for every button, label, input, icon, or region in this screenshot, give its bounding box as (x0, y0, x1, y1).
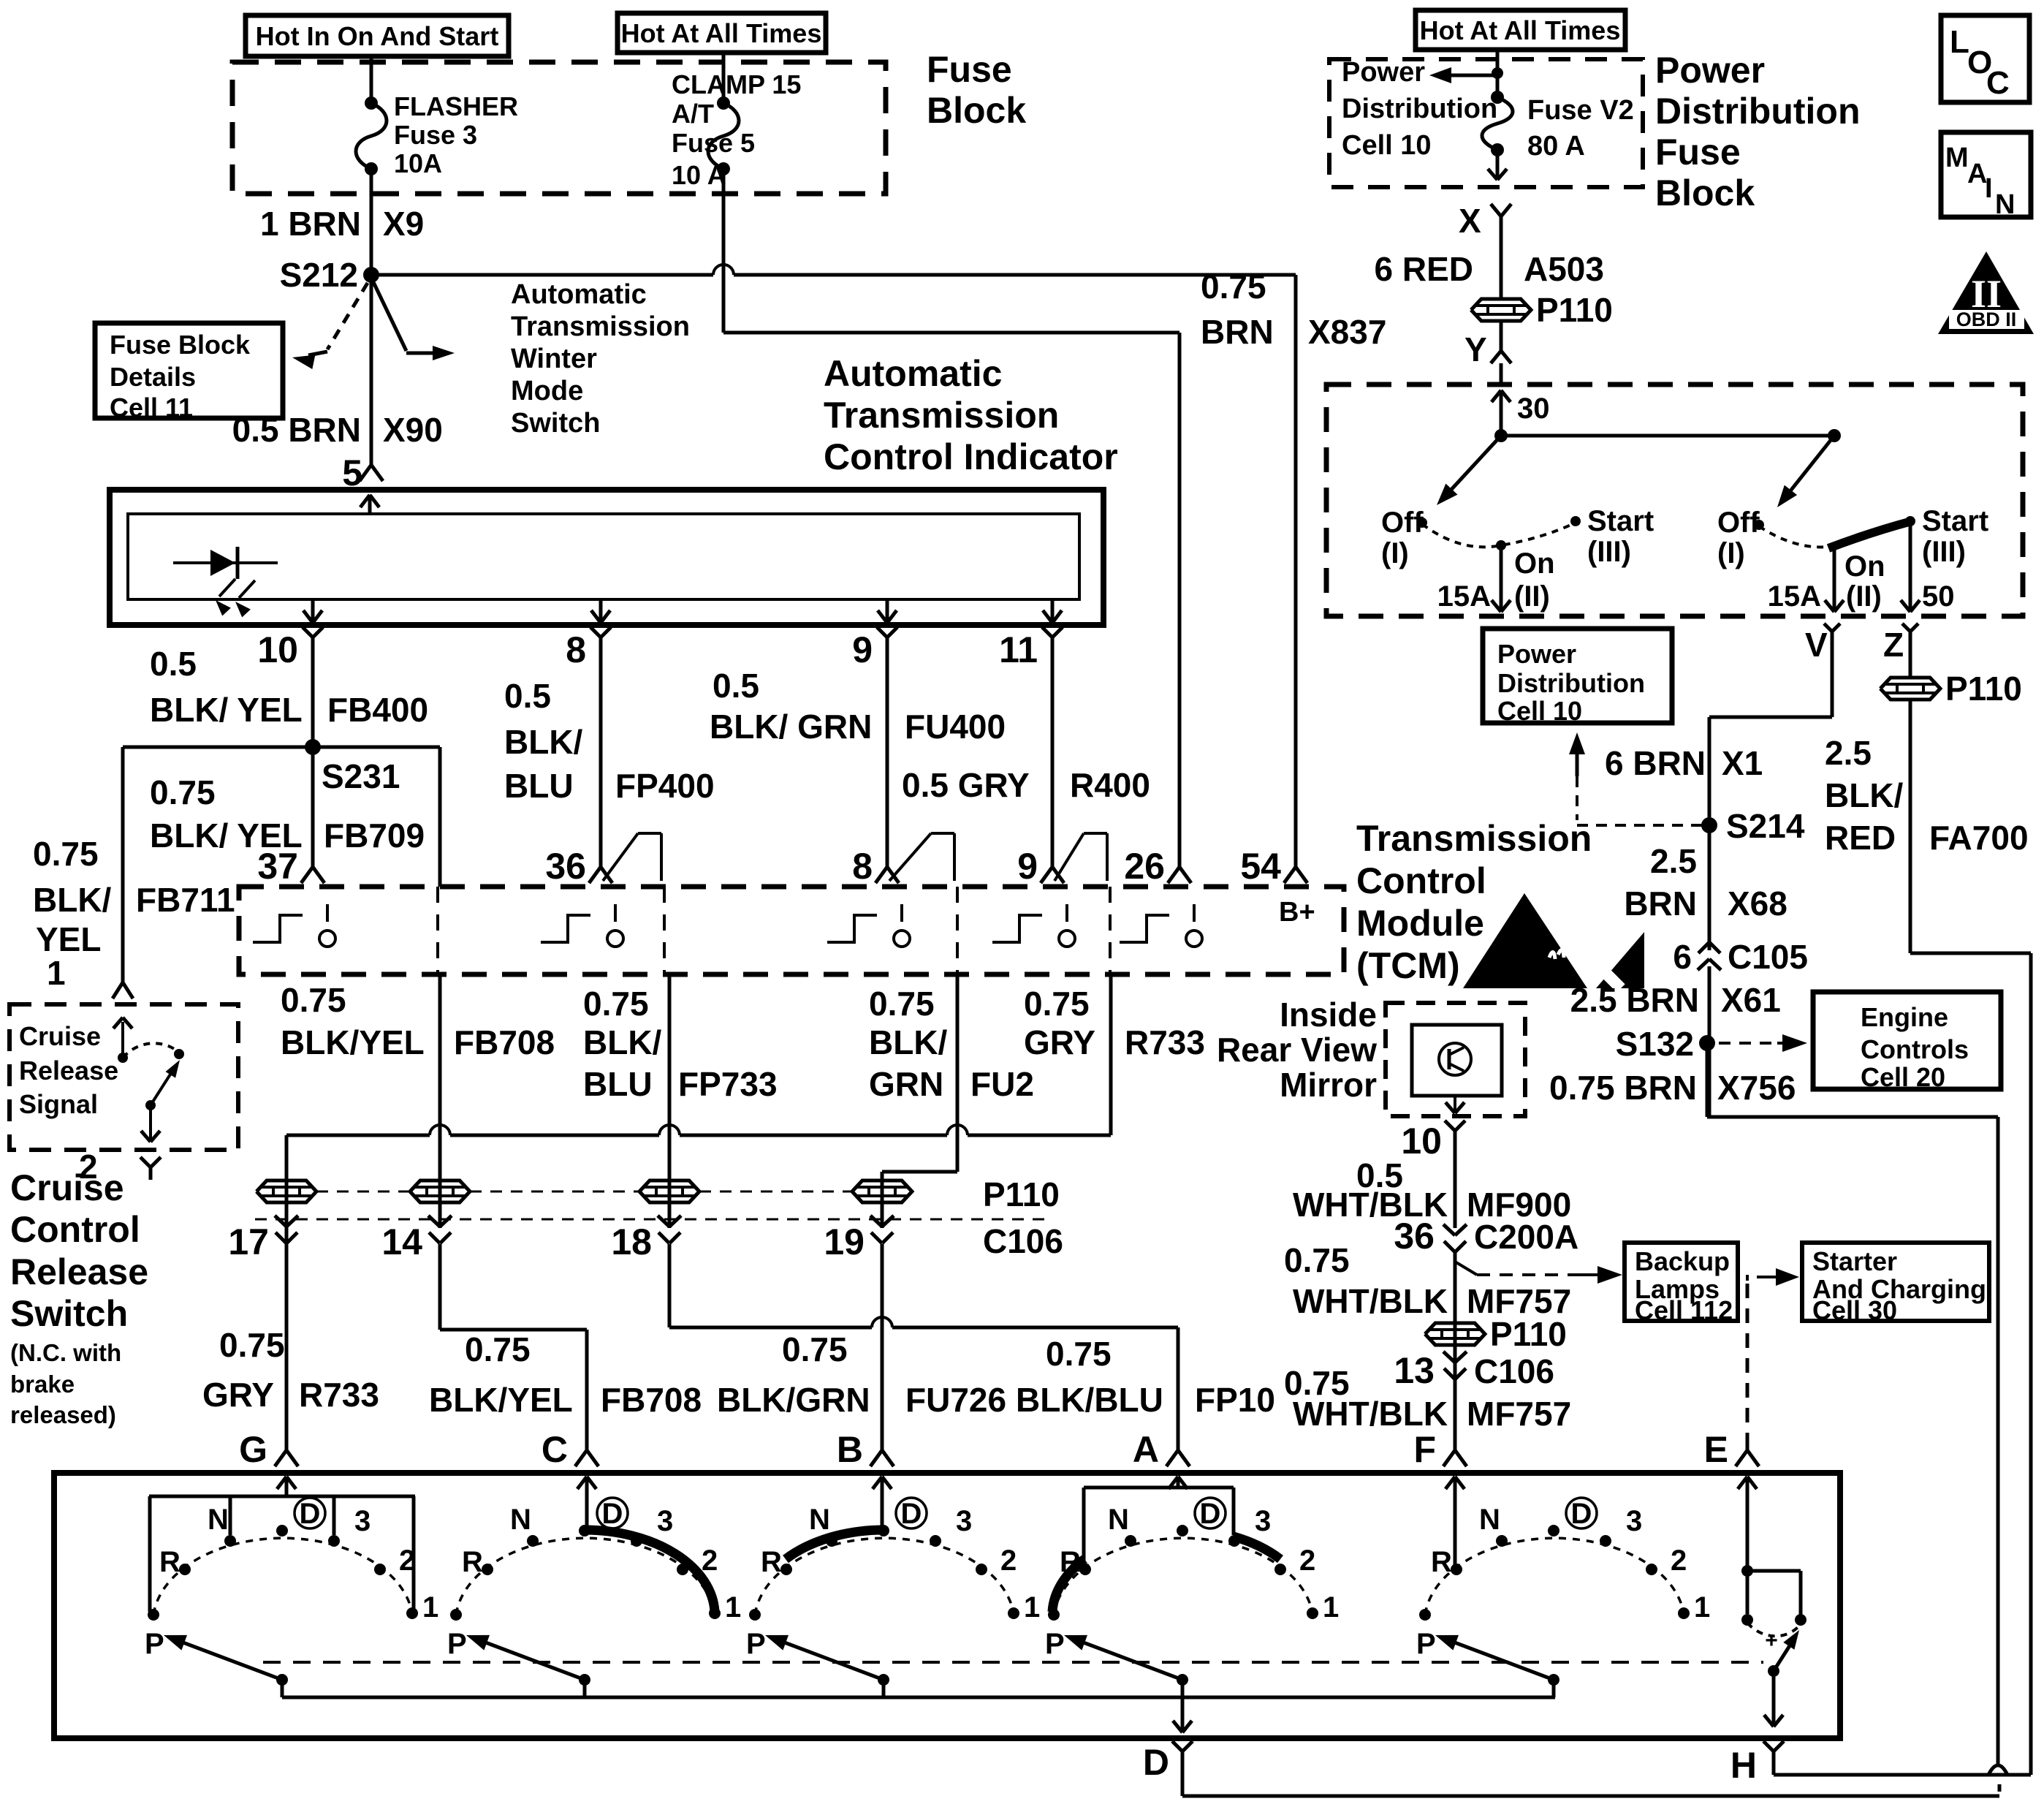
svg-text:Release: Release (10, 1251, 148, 1292)
svg-text:FB709: FB709 (324, 816, 425, 855)
svg-text:Hot At All Times: Hot At All Times (621, 18, 822, 48)
svg-text:3: 3 (1255, 1505, 1271, 1537)
svg-text:Distribution: Distribution (1497, 668, 1645, 698)
svg-text:Power: Power (1655, 50, 1765, 91)
svg-text:Power: Power (1497, 639, 1576, 669)
svg-text:X: X (1459, 202, 1481, 240)
svg-text:G: G (239, 1429, 267, 1470)
svg-text:(TCM): (TCM) (1356, 945, 1460, 986)
svg-text:FP733: FP733 (678, 1065, 778, 1103)
svg-text:B: B (837, 1429, 863, 1470)
svg-text:2.5 BRN: 2.5 BRN (1570, 981, 1699, 1019)
svg-text:Cell 10: Cell 10 (1497, 696, 1582, 726)
svg-text:Mirror: Mirror (1280, 1066, 1377, 1104)
svg-text:R733: R733 (1125, 1023, 1205, 1061)
svg-text:Y: Y (1464, 330, 1487, 368)
svg-text:Control: Control (10, 1209, 140, 1250)
svg-text:S212: S212 (280, 256, 358, 294)
svg-text:Signal: Signal (19, 1089, 98, 1119)
svg-text:BRN: BRN (1624, 884, 1697, 922)
svg-text:D: D (1143, 1742, 1169, 1783)
svg-text:P: P (1416, 1628, 1436, 1660)
svg-text:2: 2 (702, 1545, 718, 1577)
svg-text:Cruise: Cruise (19, 1021, 101, 1051)
svg-text:BLK/: BLK/ (583, 1023, 662, 1061)
svg-text:N: N (1995, 189, 2015, 220)
svg-text:0.75: 0.75 (219, 1326, 285, 1364)
svg-text:0.75: 0.75 (583, 985, 649, 1023)
svg-text:released): released) (10, 1401, 116, 1428)
svg-text:N: N (1108, 1504, 1129, 1536)
svg-text:10: 10 (257, 629, 298, 670)
svg-text:Cell 11: Cell 11 (110, 393, 193, 423)
svg-text:CLAMP 15: CLAMP 15 (672, 69, 801, 99)
svg-text:6 RED: 6 RED (1375, 250, 1473, 288)
svg-text:N: N (1479, 1504, 1500, 1536)
svg-text:8: 8 (566, 629, 586, 670)
svg-text:D: D (1200, 1498, 1221, 1530)
svg-text:Distribution: Distribution (1342, 94, 1497, 124)
svg-text:WHT/BLK: WHT/BLK (1293, 1395, 1448, 1433)
svg-text:0.5: 0.5 (150, 645, 197, 683)
svg-text:WHT/BLK: WHT/BLK (1293, 1282, 1448, 1320)
svg-text:0.5: 0.5 (504, 677, 551, 715)
svg-text:6 BRN: 6 BRN (1605, 744, 1706, 782)
svg-text:2.5: 2.5 (1650, 842, 1697, 880)
svg-text:R: R (761, 1546, 782, 1578)
svg-text:FB400: FB400 (327, 691, 428, 729)
svg-text:Details: Details (110, 362, 196, 392)
svg-text:OBD II: OBD II (1956, 308, 2017, 330)
svg-text:0.75: 0.75 (869, 985, 935, 1023)
svg-text:Starter: Starter (1812, 1246, 1897, 1276)
svg-text:17: 17 (228, 1221, 269, 1262)
svg-text:(N.C. with: (N.C. with (10, 1339, 121, 1366)
svg-text:26: 26 (1124, 846, 1165, 887)
svg-text:8: 8 (852, 846, 873, 887)
svg-text:L: L (1950, 24, 1969, 60)
svg-text:Engine: Engine (1861, 1002, 1948, 1032)
svg-text:MF757: MF757 (1467, 1395, 1571, 1433)
svg-text:C106: C106 (1474, 1352, 1554, 1390)
svg-text:X1: X1 (1722, 744, 1763, 782)
svg-text:BLK/YEL: BLK/YEL (281, 1023, 425, 1061)
svg-text:Fuse Block: Fuse Block (110, 330, 251, 360)
svg-text:B+: B+ (1279, 897, 1315, 928)
svg-text:0.75 BRN: 0.75 BRN (1549, 1069, 1697, 1107)
svg-text:3: 3 (956, 1505, 972, 1537)
svg-text:Automatic: Automatic (824, 353, 1002, 394)
svg-text:FP10: FP10 (1195, 1381, 1275, 1419)
svg-text:F: F (1413, 1429, 1436, 1470)
svg-text:FU726: FU726 (905, 1381, 1006, 1419)
svg-text:0.75: 0.75 (33, 835, 99, 873)
svg-text:3: 3 (1626, 1505, 1642, 1537)
svg-text:M: M (1945, 143, 1969, 173)
svg-text:Transmission: Transmission (1356, 818, 1592, 859)
svg-text:Block: Block (927, 90, 1026, 131)
svg-text:BLK/YEL: BLK/YEL (429, 1381, 573, 1419)
svg-text:A/T: A/T (672, 99, 714, 129)
svg-text:YEL: YEL (36, 920, 101, 958)
svg-text:BLK/: BLK/ (1825, 776, 1904, 814)
svg-text:N: N (510, 1504, 531, 1536)
svg-text:P110: P110 (1945, 670, 2022, 708)
svg-text:37: 37 (257, 846, 298, 887)
svg-text:C: C (542, 1429, 568, 1470)
svg-text:RED: RED (1825, 819, 1896, 857)
svg-text:On: On (1844, 550, 1885, 583)
svg-text:36: 36 (1394, 1216, 1435, 1257)
svg-text:S231: S231 (322, 757, 400, 795)
svg-text:BLK/: BLK/ (33, 881, 112, 919)
svg-text:19: 19 (824, 1221, 865, 1262)
svg-text:(III): (III) (1922, 536, 1966, 568)
svg-text:2: 2 (1000, 1545, 1017, 1577)
svg-text:R733: R733 (299, 1376, 379, 1414)
svg-text:D: D (300, 1498, 321, 1530)
svg-text:P110: P110 (1536, 291, 1613, 329)
svg-text:GRN: GRN (869, 1065, 943, 1103)
svg-text:BLK/ YEL: BLK/ YEL (150, 691, 303, 729)
svg-text:FB708: FB708 (601, 1381, 702, 1419)
svg-text:0.75: 0.75 (281, 981, 346, 1019)
svg-text:(II): (II) (1846, 580, 1882, 613)
svg-text:Hot At All Times: Hot At All Times (1420, 15, 1621, 45)
svg-text:S214: S214 (1726, 807, 1805, 845)
svg-text:X837: X837 (1308, 313, 1386, 351)
svg-text:9: 9 (1017, 846, 1038, 887)
svg-text:BLU: BLU (583, 1065, 653, 1103)
svg-text:0.5 GRY: 0.5 GRY (902, 766, 1030, 804)
svg-text:(II): (II) (1514, 580, 1550, 613)
svg-text:0.5: 0.5 (713, 667, 759, 705)
svg-text:(III): (III) (1587, 536, 1631, 568)
svg-text:X9: X9 (383, 205, 424, 243)
svg-text:0.75: 0.75 (1201, 268, 1266, 306)
svg-text:X90: X90 (383, 411, 443, 449)
svg-text:80 A: 80 A (1527, 131, 1585, 162)
svg-text:(I): (I) (1381, 537, 1409, 569)
svg-text:Off: Off (1717, 507, 1760, 539)
svg-text:Hot In On And Start: Hot In On And Start (256, 21, 499, 51)
svg-text:C105: C105 (1728, 938, 1808, 976)
svg-text:BLK/GRN: BLK/GRN (717, 1381, 870, 1419)
svg-text:BLK/: BLK/ (869, 1023, 948, 1061)
svg-text:6: 6 (1673, 938, 1692, 976)
svg-text:P: P (746, 1628, 766, 1660)
svg-text:D: D (901, 1498, 922, 1530)
svg-text:0.75: 0.75 (782, 1330, 848, 1368)
svg-text:Cell 10: Cell 10 (1342, 130, 1432, 161)
svg-text:36: 36 (545, 846, 586, 887)
svg-text:R400: R400 (1070, 766, 1150, 804)
svg-text:FU400: FU400 (905, 708, 1006, 746)
svg-text:1: 1 (47, 954, 66, 992)
svg-text:10 A: 10 A (672, 160, 726, 190)
svg-text:Power: Power (1342, 57, 1425, 88)
svg-text:11: 11 (999, 629, 1038, 670)
svg-text:FA700: FA700 (1929, 819, 2029, 857)
svg-text:3: 3 (354, 1505, 371, 1537)
svg-text:Release: Release (19, 1056, 118, 1085)
svg-text:1: 1 (725, 1591, 741, 1623)
svg-text:50: 50 (1922, 580, 1955, 613)
svg-text:FB711: FB711 (136, 881, 235, 919)
svg-text:Start: Start (1587, 505, 1654, 537)
svg-text:P: P (145, 1628, 164, 1660)
svg-text:Block: Block (1655, 173, 1755, 213)
svg-text:brake: brake (10, 1371, 75, 1398)
svg-text:Mode: Mode (511, 376, 583, 406)
svg-text:Fuse V2: Fuse V2 (1527, 95, 1634, 126)
svg-text:Fuse: Fuse (1655, 132, 1741, 173)
svg-text:BLU: BLU (504, 767, 574, 805)
svg-text:P110: P110 (983, 1175, 1060, 1213)
svg-text:Rear View: Rear View (1217, 1031, 1377, 1069)
svg-text:10: 10 (1401, 1121, 1442, 1162)
svg-text:15A: 15A (1437, 580, 1491, 613)
svg-text:10A: 10A (394, 148, 442, 178)
svg-text:R: R (159, 1546, 181, 1578)
svg-text:V: V (1805, 626, 1828, 664)
svg-text:N: N (809, 1504, 830, 1536)
svg-text:P: P (447, 1628, 467, 1660)
svg-text:(I): (I) (1717, 537, 1745, 569)
svg-text:Start: Start (1922, 505, 1988, 537)
svg-text:Cell 20: Cell 20 (1861, 1062, 1945, 1092)
svg-text:FLASHER: FLASHER (394, 91, 518, 121)
svg-text:Switch: Switch (511, 408, 600, 439)
svg-text:BLK/: BLK/ (504, 723, 583, 761)
svg-text:I: I (1985, 173, 1993, 204)
svg-text:E: E (1704, 1429, 1728, 1470)
svg-text:Control: Control (1356, 860, 1486, 901)
svg-text:Winter: Winter (511, 344, 597, 374)
svg-text:1: 1 (1024, 1591, 1040, 1623)
svg-text:D: D (1571, 1498, 1592, 1530)
svg-text:0.75: 0.75 (465, 1330, 531, 1368)
svg-text:2: 2 (399, 1545, 415, 1577)
svg-text:2: 2 (1671, 1545, 1687, 1577)
svg-text:18: 18 (611, 1221, 652, 1262)
svg-text:9: 9 (852, 629, 873, 670)
svg-text:S132: S132 (1616, 1025, 1694, 1063)
svg-text:Distribution: Distribution (1655, 91, 1861, 132)
svg-text:FU2: FU2 (970, 1065, 1034, 1103)
svg-text:0.75: 0.75 (1024, 985, 1090, 1023)
svg-text:1: 1 (422, 1591, 438, 1623)
svg-text:Z: Z (1883, 626, 1904, 664)
svg-text:Transmission: Transmission (511, 311, 690, 342)
svg-text:C106: C106 (983, 1222, 1063, 1260)
svg-text:30: 30 (1517, 393, 1550, 425)
svg-text:Control Indicator: Control Indicator (824, 436, 1118, 477)
svg-text:R: R (462, 1546, 483, 1578)
svg-text:H: H (1730, 1745, 1757, 1786)
svg-text:X68: X68 (1728, 884, 1787, 922)
svg-text:A503: A503 (1524, 250, 1604, 288)
svg-text:2: 2 (1299, 1545, 1315, 1577)
svg-text:Module: Module (1356, 903, 1484, 944)
svg-text:BLK/BLU: BLK/BLU (1016, 1381, 1163, 1419)
svg-text:R: R (1431, 1546, 1452, 1578)
svg-text:X61: X61 (1721, 981, 1781, 1019)
svg-text:GRY: GRY (202, 1376, 274, 1414)
svg-text:Inside: Inside (1280, 996, 1377, 1034)
svg-text:P110: P110 (1490, 1315, 1567, 1353)
svg-text:1 BRN: 1 BRN (260, 205, 361, 243)
svg-text:Switch: Switch (10, 1293, 128, 1334)
svg-text:Fuse 5: Fuse 5 (672, 128, 755, 158)
svg-text:C200A: C200A (1474, 1218, 1578, 1256)
svg-text:Cruise: Cruise (10, 1167, 124, 1208)
svg-text:0.5 BRN: 0.5 BRN (232, 411, 361, 449)
svg-text:X756: X756 (1717, 1069, 1796, 1107)
svg-text:A: A (1133, 1429, 1159, 1470)
svg-text:D: D (602, 1498, 623, 1530)
svg-text:Automatic: Automatic (511, 279, 647, 310)
svg-text:2.5: 2.5 (1825, 734, 1872, 772)
svg-text:C: C (1986, 65, 2010, 101)
svg-text:P: P (1045, 1628, 1065, 1660)
svg-text:BRN: BRN (1201, 313, 1274, 351)
svg-text:1: 1 (1323, 1591, 1339, 1623)
svg-text:14: 14 (381, 1221, 422, 1262)
svg-text:N: N (208, 1504, 229, 1536)
svg-text:0.75: 0.75 (1046, 1335, 1112, 1373)
svg-text:BLK/ GRN: BLK/ GRN (710, 708, 872, 746)
svg-text:15A: 15A (1768, 580, 1821, 613)
svg-text:FB708: FB708 (454, 1023, 555, 1061)
svg-text:Controls: Controls (1861, 1034, 1969, 1064)
svg-text:54: 54 (1240, 846, 1281, 887)
svg-text:Cell 30: Cell 30 (1812, 1295, 1897, 1325)
svg-text:Cell 112: Cell 112 (1635, 1295, 1733, 1325)
svg-text:13: 13 (1394, 1350, 1435, 1391)
svg-text:Backup: Backup (1635, 1246, 1730, 1276)
svg-text:FP400: FP400 (615, 767, 715, 805)
svg-text:0.75: 0.75 (150, 773, 216, 811)
svg-text:1: 1 (1694, 1591, 1710, 1623)
svg-text:+: + (1765, 1629, 1778, 1653)
svg-text:On: On (1514, 547, 1555, 580)
svg-text:Fuse 3: Fuse 3 (394, 120, 477, 150)
svg-text:Transmission: Transmission (824, 395, 1059, 436)
svg-text:3: 3 (657, 1505, 673, 1537)
svg-text:GRY: GRY (1024, 1023, 1095, 1061)
svg-text:Fuse: Fuse (927, 49, 1012, 90)
svg-text:0.75: 0.75 (1284, 1241, 1350, 1279)
